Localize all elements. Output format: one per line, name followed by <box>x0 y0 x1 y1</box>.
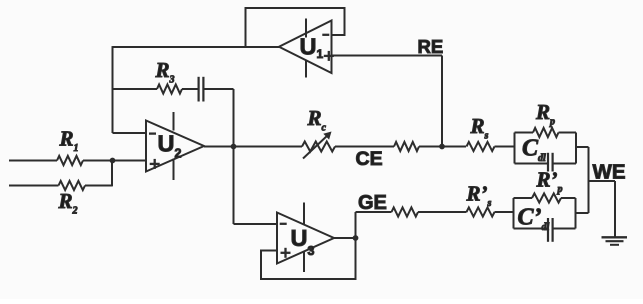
svg-text:WE: WE <box>593 161 626 184</box>
svg-text:Cdl: Cdl <box>522 136 546 165</box>
svg-text:Rc: Rc <box>307 106 327 134</box>
svg-text:RE: RE <box>418 36 444 57</box>
svg-text:GE: GE <box>358 192 387 214</box>
svg-text:Rs: Rs <box>470 114 489 142</box>
svg-text:R’p: R’p <box>536 168 563 196</box>
svg-text:U1: U1 <box>300 34 324 61</box>
svg-text:R2: R2 <box>58 189 78 217</box>
svg-text:R1: R1 <box>59 127 79 155</box>
svg-text:CE: CE <box>356 148 383 170</box>
svg-text:R3: R3 <box>155 58 175 86</box>
svg-text:C’dl: C’dl <box>518 204 550 233</box>
svg-text:Rp: Rp <box>535 100 555 128</box>
svg-text:R’s: R’s <box>466 181 492 209</box>
